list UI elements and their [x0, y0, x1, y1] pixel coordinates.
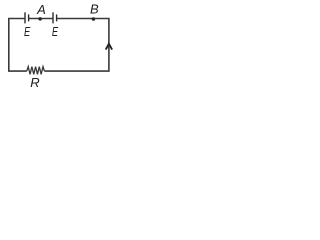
wire: between cells through node A	[29, 18, 54, 20]
svg-text:B: B	[90, 2, 99, 17]
battery cell E (left), long plate	[24, 12, 26, 23]
svg-text:E: E	[52, 26, 59, 40]
node A junction dot	[38, 17, 42, 21]
battery cell E (right), short plate	[56, 14, 58, 21]
current direction arrowhead on right wire	[106, 44, 112, 50]
battery cell E (right), long plate	[52, 12, 54, 23]
wire: top-left run, left side, bottom-left run	[9, 19, 27, 72]
svg-text:R: R	[30, 75, 39, 90]
svg-text:A: A	[36, 2, 46, 17]
node B junction dot	[92, 17, 96, 21]
battery cell E (left), short plate	[28, 14, 30, 21]
svg-text:E: E	[24, 26, 31, 40]
wire: top-right run, right side, bottom-right run	[44, 19, 109, 72]
resistor R zigzag	[27, 67, 45, 75]
